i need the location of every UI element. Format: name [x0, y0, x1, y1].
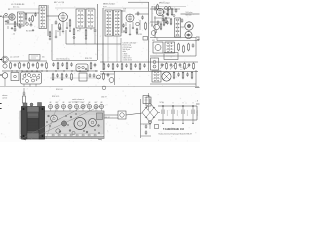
- svg-text:6U5: 6U5: [152, 40, 155, 42]
- svg-text:6K7: 6K7: [95, 102, 98, 104]
- svg-text:6K7: 6K7: [69, 102, 72, 104]
- svg-text:CBL 97: CBL 97: [104, 117, 110, 119]
- svg-text:v.c. 2.3: v.c. 2.3: [180, 69, 185, 71]
- svg-text:field coil: field coil: [186, 14, 192, 16]
- svg-text:control: control: [2, 96, 8, 99]
- svg-text:4 C33 1Omf: 4 C33 1Omf: [123, 60, 133, 62]
- svg-text:C9: C9: [57, 31, 59, 33]
- svg-text:C1: C1: [8, 9, 10, 11]
- svg-text:6K7: 6K7: [82, 102, 85, 104]
- svg-text:6K: 6K: [89, 102, 91, 104]
- svg-text:IFT2: IFT2: [77, 31, 80, 33]
- svg-text:CBL 97: CBL 97: [101, 97, 107, 99]
- svg-text:Radio-Schema Empfanger Model: Radio-Schema Empfanger Modell 1938-39: [159, 132, 192, 135]
- svg-text:6K: 6K: [63, 102, 65, 104]
- svg-text:C4: C4: [13, 34, 15, 36]
- svg-text:det. osc.: det. osc.: [13, 5, 20, 8]
- svg-text:R26 5OO: R26 5OO: [52, 96, 60, 98]
- svg-text:+ B: + B: [196, 101, 198, 103]
- svg-text:6K: 6K: [101, 102, 103, 104]
- svg-text:C24 R11: C24 R11: [136, 34, 142, 36]
- svg-text:a.v.c.: a.v.c.: [103, 6, 108, 8]
- svg-text:6K: 6K: [50, 102, 52, 104]
- svg-text:6J5: 6J5: [42, 57, 45, 59]
- svg-text:6K7: 6K7: [56, 102, 59, 104]
- svg-text:R26 1OO: R26 1OO: [56, 89, 63, 91]
- svg-text:6K: 6K: [76, 102, 78, 104]
- svg-text:C41 R22 band sw.: C41 R22 band sw.: [56, 58, 70, 60]
- svg-text:R18 C33: R18 C33: [85, 58, 92, 60]
- svg-text:T.GHEORGHE 102: T.GHEORGHE 102: [163, 129, 185, 131]
